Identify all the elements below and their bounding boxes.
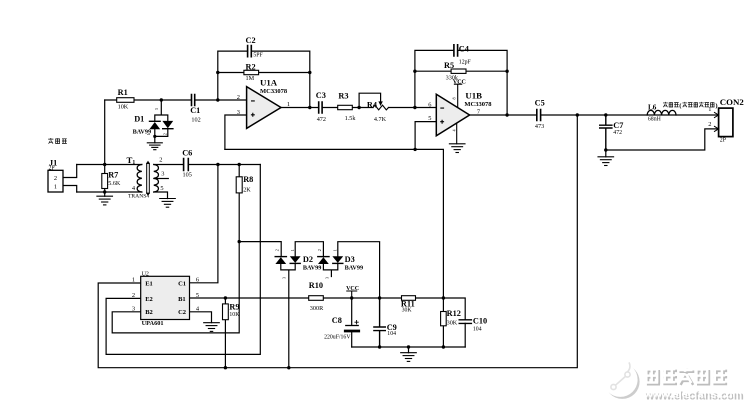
op-amp U1B: [436, 94, 469, 136]
capacitor C2 plates: [248, 46, 252, 57]
svg-text:2: 2: [162, 133, 167, 135]
resistor R10 body: [309, 296, 324, 301]
capacitor C9: [374, 298, 385, 347]
svg-text:1: 1: [333, 249, 338, 251]
svg-text:1: 1: [132, 276, 135, 283]
svg-text:B2: B2: [145, 309, 153, 316]
svg-text:2: 2: [274, 249, 279, 251]
resistor R9 leads: [224, 298, 226, 368]
transformer T1 secondary winding: [154, 165, 159, 192]
svg-text:1.5k: 1.5k: [345, 115, 357, 122]
resistor R12 leads: [442, 298, 444, 347]
svg-text:1: 1: [146, 133, 151, 135]
VCC mid stem: [347, 291, 357, 298]
svg-text:BAV99: BAV99: [345, 265, 363, 272]
svg-text:D2: D2: [303, 255, 313, 264]
D1 diode triangles: [149, 122, 160, 129]
wire row corner to C10: [443, 298, 465, 347]
svg-text:R5: R5: [444, 61, 454, 70]
ground on bottom wire: [408, 347, 410, 353]
svg-text:3: 3: [154, 108, 159, 110]
svg-text:4.7K: 4.7K: [374, 116, 387, 123]
svg-text:472: 472: [317, 116, 326, 123]
connector CON2 box: [719, 108, 733, 137]
capacitor C10 plates: [459, 320, 471, 324]
wire input row from R1 to U1A: [105, 99, 247, 101]
resistor R5 body: [451, 69, 466, 73]
svg-text:C5: C5: [535, 98, 545, 107]
svg-text:3: 3: [324, 277, 329, 279]
svg-text:C2: C2: [178, 309, 186, 316]
watermark logo: [605, 364, 640, 399]
ground below D1: [147, 143, 162, 150]
junction dots mid section: [216, 98, 219, 101]
svg-text:www.elecfans.com: www.elecfans.com: [643, 389, 742, 401]
svg-text:5: 5: [428, 115, 431, 122]
svg-text:C7: C7: [613, 121, 623, 130]
inductor L6: [647, 110, 676, 115]
wire left vertical from R1 down to T1 top: [104, 100, 106, 165]
svg-text:3: 3: [237, 109, 240, 116]
svg-text:2: 2: [237, 94, 240, 101]
wire C6 node down to U2 pin C1: [190, 165, 218, 283]
connector J1 box: [48, 170, 63, 192]
svg-text:R7: R7: [108, 171, 118, 180]
capacitor C6 plates: [184, 159, 189, 171]
svg-text:2: 2: [159, 157, 162, 164]
resistor R8 body: [236, 177, 242, 193]
svg-text:C6: C6: [182, 149, 192, 158]
svg-text:2: 2: [54, 175, 57, 182]
svg-text:MC33078: MC33078: [464, 101, 492, 108]
transformer T1 core: [147, 163, 150, 193]
svg-text:472: 472: [613, 130, 622, 136]
svg-text:10K: 10K: [118, 103, 129, 110]
svg-text:2: 2: [708, 121, 711, 128]
svg-text:C1: C1: [178, 280, 186, 287]
svg-text:TRANS4: TRANS4: [128, 194, 149, 200]
watermark 电子发烧友 white: [645, 367, 725, 383]
svg-text:C4: C4: [459, 44, 469, 53]
svg-text:R8: R8: [243, 175, 253, 184]
svg-text:3: 3: [281, 277, 286, 279]
svg-text:105: 105: [183, 171, 192, 178]
svg-text:473: 473: [535, 123, 544, 130]
wire R2 row: [218, 72, 310, 74]
svg-text:12pF: 12pF: [459, 60, 472, 66]
capacitor C4 plates: [454, 45, 458, 56]
op-amp U1A: [247, 87, 281, 129]
ground below C7: [605, 150, 607, 157]
svg-text:VCC: VCC: [346, 286, 359, 292]
svg-text:R2: R2: [246, 63, 256, 72]
svg-text:104: 104: [387, 331, 396, 337]
capacitor C8 electrolytic: [351, 298, 353, 347]
svg-text:C10: C10: [473, 316, 487, 325]
U1B pin4 ground stub: [456, 124, 458, 144]
svg-text:3: 3: [161, 170, 164, 177]
label 接探头: [48, 138, 67, 144]
wire T1 secondary top to C6: [154, 164, 260, 166]
svg-text:R3: R3: [338, 92, 348, 101]
VCC stub U1B pin8: [454, 84, 461, 107]
capacitor C5 plates: [537, 110, 541, 121]
rheostat R4 wiper loop: [359, 93, 381, 107]
svg-text:2P: 2P: [49, 166, 55, 172]
label 接白端(信号输出电压): [663, 102, 714, 107]
wire U1B output row: [470, 114, 719, 116]
svg-text:10K: 10K: [229, 312, 240, 318]
diode D3 dual BAV99: [323, 263, 337, 276]
wire T1 secondary mid tap pin3 open: [154, 178, 169, 180]
svg-text:B1: B1: [178, 296, 186, 303]
transformer T1 primary winding: [137, 165, 142, 192]
resistor R11 body: [402, 296, 416, 301]
watermark 电子发烧友 shadow: [647, 369, 727, 385]
svg-text:D3: D3: [345, 255, 355, 264]
svg-text:CON2: CON2: [720, 97, 745, 107]
capacitor C3 plates: [319, 102, 322, 113]
wire B2 net to R8 bottom: [112, 242, 239, 333]
svg-text:UPA601: UPA601: [142, 320, 164, 327]
wire J1 pin1 stub: [63, 186, 77, 193]
resistor R7: [104, 165, 106, 193]
svg-text:300R: 300R: [310, 305, 324, 312]
wire T1 primary bottom: [77, 191, 142, 193]
wire J1 pin2 stub: [63, 165, 77, 178]
svg-text:68nH: 68nH: [648, 117, 662, 123]
svg-text:): ): [715, 102, 717, 109]
resistor R12 body: [441, 312, 447, 326]
svg-text:VCC: VCC: [453, 79, 466, 85]
wire D3 right top bracket down to C9 node: [338, 242, 380, 298]
svg-text:R12: R12: [447, 309, 461, 318]
svg-text:2: 2: [132, 292, 135, 299]
svg-text:R1: R1: [118, 88, 128, 97]
junction dots left section: [160, 98, 163, 101]
capacitor C1 plates: [192, 95, 195, 106]
CON2 pin arrows: [714, 112, 719, 132]
T1 core arrows: [146, 161, 150, 196]
R4 wiper arrowhead: [378, 101, 382, 106]
wire C4 feedback top: [415, 50, 507, 115]
svg-text:D1: D1: [134, 114, 144, 123]
wire T1 secondary bottom pin5 to ground: [154, 192, 168, 199]
svg-text:8: 8: [451, 97, 456, 99]
svg-text:U2: U2: [142, 272, 149, 278]
svg-text:MC33078: MC33078: [260, 88, 288, 95]
resistor R8 leads: [238, 165, 240, 242]
svg-text:E1: E1: [145, 280, 153, 287]
svg-text:1: 1: [708, 106, 711, 113]
wire R8 bottom to D2: [239, 242, 281, 257]
svg-text:5: 5: [160, 185, 163, 192]
U2 pin C2 to ground: [190, 312, 212, 323]
svg-text:R9: R9: [229, 303, 239, 312]
svg-text:5PF: 5PF: [253, 53, 263, 59]
ground at T1 pin5: [160, 199, 176, 208]
IC U2 UPA601 box: [141, 276, 190, 319]
svg-text:1: 1: [54, 183, 57, 190]
rheostat R4 zigzag: [373, 105, 388, 110]
svg-text:C2: C2: [246, 36, 256, 45]
svg-text:BAV99: BAV99: [303, 265, 321, 272]
junction dots lower section: [238, 240, 241, 243]
wire D2 right top bracket to D3 left: [295, 242, 323, 257]
wire CON2 pin2 net: [606, 129, 719, 150]
svg-text:1M: 1M: [246, 75, 255, 82]
wire T1 primary top: [77, 164, 142, 166]
svg-text:6: 6: [428, 101, 431, 108]
svg-text:30K: 30K: [447, 320, 458, 327]
svg-text:102: 102: [191, 116, 200, 123]
wire U1A plus input: [225, 115, 247, 149]
ground below R7: [104, 192, 106, 196]
svg-text:R10: R10: [309, 281, 323, 290]
svg-text:30K: 30K: [402, 307, 413, 313]
wire C8 C9 bottom: [352, 346, 466, 348]
svg-text:C8: C8: [332, 316, 342, 325]
svg-text:C1: C1: [190, 106, 200, 115]
feedback bus right vertical and bottom: [98, 115, 577, 368]
D2 diode triangles: [275, 257, 286, 264]
wire R5 row: [415, 70, 507, 72]
svg-text:2P: 2P: [720, 138, 726, 144]
svg-text:6: 6: [196, 276, 199, 283]
resistor R1 body: [117, 98, 134, 103]
svg-text:2: 2: [317, 249, 322, 251]
wire E2 net via C6 node: [106, 165, 260, 355]
svg-text:3: 3: [132, 305, 135, 312]
svg-text:E2: E2: [145, 296, 153, 303]
diode D2 dual BAV99: [281, 263, 295, 367]
svg-text:C3: C3: [316, 91, 326, 100]
resistor R3 body: [338, 105, 353, 109]
wire long plus-net row: [225, 122, 444, 298]
diode D1 dual BAV99: [155, 100, 168, 143]
resistor R2 body: [244, 70, 259, 74]
svg-text:R4: R4: [367, 100, 377, 109]
wire C2 feedback top: [218, 51, 310, 107]
svg-text:220uF/16V: 220uF/16V: [324, 335, 351, 341]
svg-text:1: 1: [287, 101, 290, 108]
svg-text:U1B: U1B: [465, 91, 482, 101]
svg-text:(: (: [679, 102, 681, 109]
svg-text:5: 5: [196, 292, 199, 299]
svg-text:2K: 2K: [243, 187, 251, 194]
svg-text:5.6K: 5.6K: [108, 180, 121, 187]
wire U1A output row: [281, 107, 436, 109]
svg-text:L6: L6: [648, 104, 657, 112]
resistor R9 body: [223, 304, 229, 320]
svg-text:U1A: U1A: [260, 78, 278, 88]
capacitor C7: [600, 115, 612, 150]
svg-text:104: 104: [473, 327, 482, 333]
svg-text:1: 1: [290, 249, 295, 251]
D3 diode triangles: [318, 257, 329, 264]
wire mid row pin B1 to R12: [190, 297, 444, 299]
